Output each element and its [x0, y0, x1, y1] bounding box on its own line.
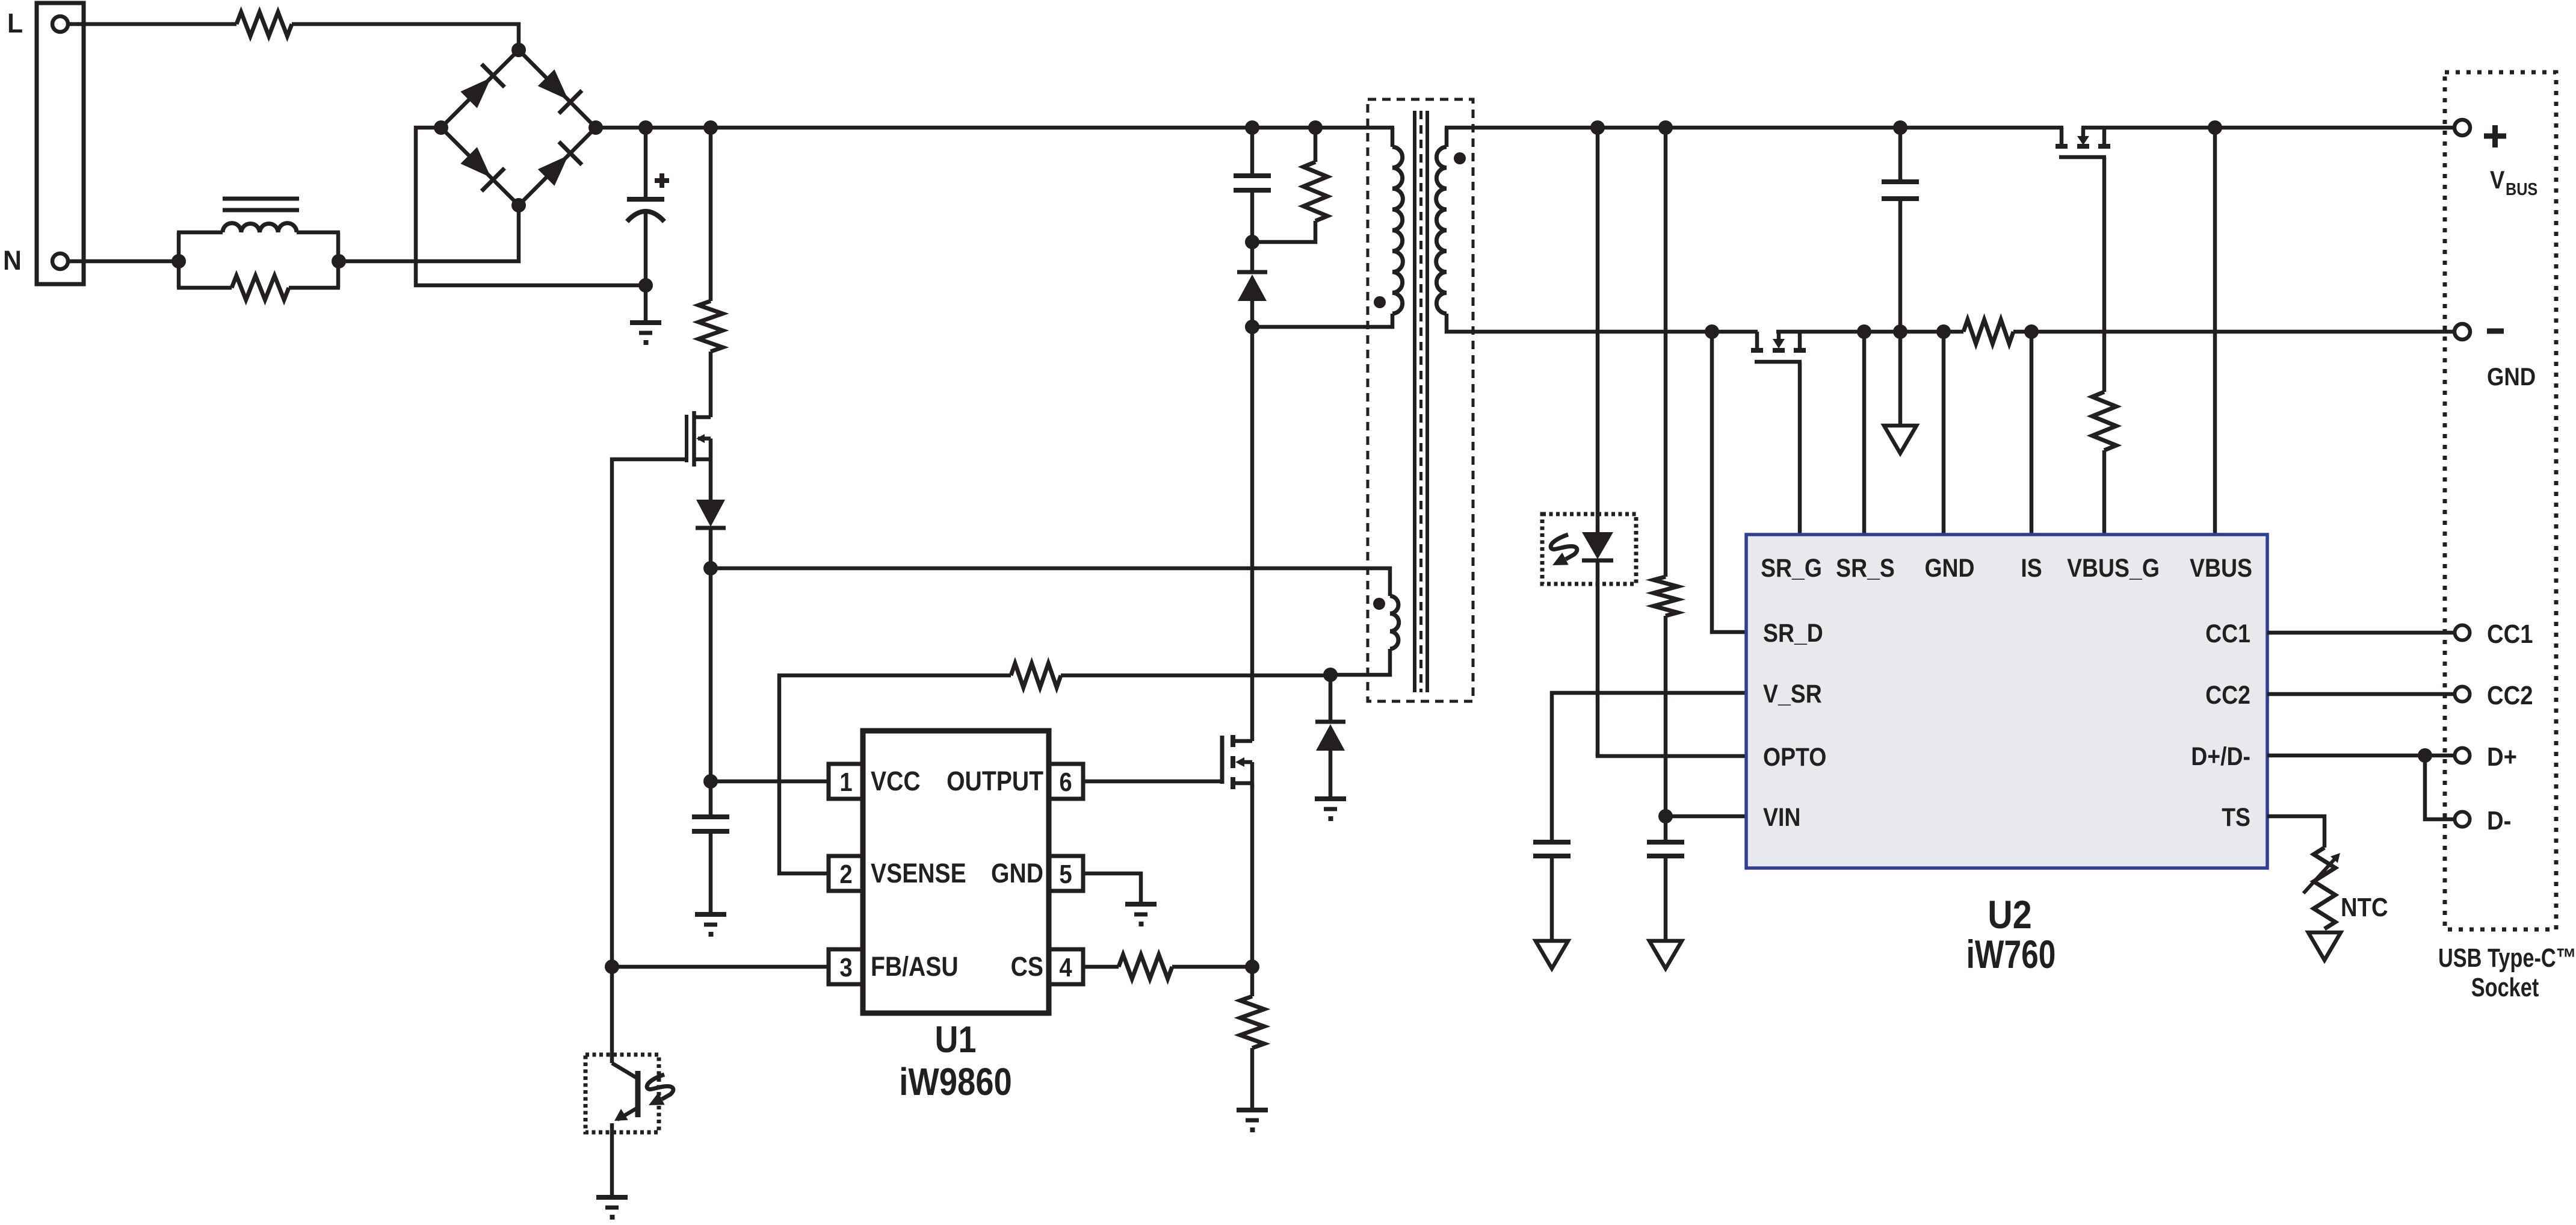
inductor L1 winding	[223, 223, 297, 232]
wire C6 to ground	[1898, 332, 1903, 426]
svg-text:CC1: CC1	[2205, 619, 2250, 648]
snubber diode D3	[1250, 242, 1255, 272]
ground NTC	[2308, 932, 2341, 960]
node bulk cap top	[638, 120, 653, 135]
choke core lines	[223, 197, 299, 201]
wire Q2 drain	[1250, 327, 1255, 741]
node GND tap	[1936, 324, 1951, 339]
svg-text:USB Type-C™: USB Type-C™	[2438, 943, 2576, 973]
svg-text:BUS: BUS	[2506, 179, 2537, 199]
wire secondary gnd rail	[1445, 330, 1758, 334]
svg-text:V: V	[2490, 166, 2504, 194]
ground sense resistor	[1237, 1108, 1268, 1112]
wire secondary top rail	[1445, 126, 2063, 130]
wire Q4 gate	[2102, 157, 2107, 392]
node LED top	[1590, 120, 1605, 135]
wire SR_S	[1862, 332, 1867, 535]
bridge top-left diode D5	[441, 50, 519, 128]
svg-text:SR_G: SR_G	[1761, 554, 1822, 583]
node IS tap	[2024, 324, 2039, 339]
svg-text:iW9860: iW9860	[899, 1060, 1012, 1103]
wire switch node to primary	[1252, 314, 1392, 327]
VCC capacitor C2	[709, 781, 713, 817]
U1 pin 1 box	[829, 764, 863, 799]
terminal D+	[2455, 748, 2470, 763]
ground opto emitter	[596, 1195, 628, 1200]
choke L1 frame right	[336, 232, 341, 288]
light arrow into U3B	[647, 1075, 673, 1099]
U1 pin 2 box	[829, 856, 863, 891]
svg-text:OUTPUT: OUTPUT	[947, 766, 1043, 796]
label C1 plus	[655, 178, 669, 183]
wire choke to bridge	[339, 205, 519, 261]
svg-text:SR_D: SR_D	[1763, 619, 1823, 648]
node CS sense	[1245, 960, 1259, 974]
wire R5 to sense node	[1172, 965, 1252, 969]
U1 pin 4 box	[1048, 949, 1083, 984]
ground bulk cap	[644, 285, 648, 323]
wire VBUS pin	[2213, 128, 2217, 535]
optocoupler LED D4	[1596, 128, 1600, 532]
wire R10 to VBUS_G	[2102, 450, 2107, 535]
sense resistor R6	[1250, 967, 1255, 996]
optocoupler phototransistor U3B	[610, 967, 614, 1063]
secondary winding T1	[1445, 128, 1449, 147]
wire pin4	[1083, 965, 1119, 969]
wire N to choke	[68, 259, 179, 264]
label minus	[2487, 329, 2504, 334]
transformer shield line	[1419, 111, 1422, 692]
aux diode D2	[1329, 675, 1333, 722]
wire VCC vertical	[709, 568, 713, 781]
wire OUTPUT to Q2 gate	[1083, 780, 1222, 784]
primary winding T1	[1391, 128, 1395, 147]
wire VCC to pin1	[711, 780, 829, 784]
svg-text:SR_S: SR_S	[1836, 554, 1895, 583]
node VBUS tap	[2208, 120, 2222, 135]
svg-text:GND: GND	[991, 858, 1043, 888]
wire FB/ASU	[612, 965, 829, 969]
wire VIN	[1666, 814, 1746, 819]
svg-text:L: L	[7, 8, 23, 39]
aux phase dot	[1373, 598, 1385, 610]
terminal L	[52, 16, 68, 32]
node SR_S tap	[1857, 324, 1871, 339]
svg-text:iW760: iW760	[1966, 932, 2056, 977]
node bulk cap bottom	[638, 278, 653, 293]
svg-text:U1: U1	[935, 1019, 977, 1061]
terminal CC2	[2455, 687, 2470, 702]
wire LED to OPTO pin	[1598, 752, 1746, 756]
wire IS	[2030, 332, 2034, 535]
terminal CC1	[2455, 625, 2470, 640]
ground aux diode	[1315, 796, 1346, 801]
optocoupler LED D4 box	[1542, 514, 1636, 584]
ground pin5	[1125, 902, 1157, 907]
transformer T1 boundary	[1368, 99, 1473, 701]
snubber capacitor C3	[1250, 128, 1255, 176]
op-amp U1 body (iW9860 controller)	[863, 731, 1049, 1013]
node output cap top	[1893, 120, 1907, 135]
op-amp U2 body (iW760 controller)	[1746, 535, 2267, 868]
transistor Q4 (VBUS switch MOSFET)	[2060, 128, 2064, 145]
wire VSENSE	[779, 675, 1011, 873]
ground VCC cap	[695, 912, 726, 917]
svg-text:IS: IS	[2021, 554, 2042, 583]
transformer core	[1413, 111, 1416, 692]
wire SR_D	[1712, 332, 1746, 632]
wire bridge negative return	[416, 128, 646, 285]
node snubber junction	[1245, 235, 1259, 249]
resistor R4 (VSENSE)	[1011, 663, 1061, 687]
node snubber res top	[1308, 120, 1323, 135]
wire L to fuse	[68, 22, 236, 26]
label plus	[2484, 134, 2506, 139]
terminal GND minus	[2454, 324, 2470, 340]
node D+ junction	[2418, 748, 2432, 763]
choke damping resistor R2	[177, 286, 232, 290]
resistor R5 (CS)	[1119, 955, 1172, 979]
svg-text:VIN: VIN	[1763, 803, 1800, 832]
fuse F1	[236, 12, 292, 36]
wire secondary gnd rail right	[1776, 330, 1963, 334]
node switch	[1245, 320, 1259, 334]
gate resistor R10	[2092, 392, 2116, 450]
svg-text:CS: CS	[1011, 951, 1043, 981]
svg-text:OPTO: OPTO	[1763, 743, 1826, 772]
svg-text:TS: TS	[2222, 803, 2250, 832]
node FB/ASU	[605, 960, 619, 974]
transistor Q2 (main switch MOSFET)	[1220, 736, 1225, 784]
bulk capacitor C1	[644, 128, 648, 199]
node choke left	[171, 254, 186, 268]
secondary phase dot	[1454, 152, 1466, 164]
USB Type-C socket boundary	[2445, 72, 2556, 929]
wire Q2 source to CS node	[1250, 783, 1255, 967]
wire secondary top rail right	[2081, 126, 2454, 130]
ground V_SR cap	[1536, 941, 1568, 969]
wire to D-	[2425, 755, 2454, 819]
terminal N	[52, 253, 68, 269]
connector J1 (AC input)	[37, 3, 84, 284]
node aux feedback	[1323, 668, 1338, 682]
node aux/VCC junction	[703, 561, 718, 575]
wire CC2	[2267, 692, 2454, 696]
wire GND pin	[1942, 332, 1946, 535]
svg-text:U2: U2	[1988, 893, 2031, 937]
svg-text:D+/D-: D+/D-	[2191, 742, 2250, 771]
ground output cap	[1884, 426, 1917, 453]
svg-text:GND: GND	[1924, 554, 1974, 583]
svg-text:CC2: CC2	[2487, 681, 2533, 710]
optocoupler phototransistor U3B box	[585, 1055, 659, 1132]
svg-text:5: 5	[1059, 860, 1072, 889]
node choke right	[332, 254, 346, 268]
svg-text:D-: D-	[2487, 806, 2511, 836]
primary phase dot	[1374, 296, 1386, 308]
wire V_SR	[1552, 693, 1746, 842]
node output cap bottom	[1893, 324, 1907, 339]
U1 pin 3 box	[829, 949, 863, 984]
U1 pin 6 box	[1048, 764, 1083, 799]
terminal D-	[2455, 812, 2470, 827]
aux winding T1	[1390, 596, 1399, 649]
svg-text:2: 2	[839, 860, 852, 889]
wire CC1	[2267, 631, 2454, 635]
wire pin5 to ground	[1083, 873, 1141, 904]
node VCC	[703, 774, 718, 789]
svg-text:VBUS_G: VBUS_G	[2067, 554, 2160, 583]
wire D3 to switch node	[1250, 301, 1255, 327]
thermistor NTC	[2314, 848, 2335, 929]
wire D+/D-	[2267, 754, 2454, 758]
wire R4 to aux	[1061, 674, 1330, 678]
svg-text:4: 4	[1059, 953, 1072, 982]
wire TS	[2267, 816, 2324, 848]
terminal VBUS plus	[2454, 120, 2470, 135]
wire fuse to bridge	[292, 24, 519, 50]
node bridge left	[434, 120, 448, 135]
wire HV rail	[596, 126, 1394, 130]
VIN capacitor C5	[1664, 816, 1668, 842]
node snubber cap top	[1245, 120, 1259, 135]
node bridge bottom	[511, 198, 526, 212]
snubber resistor R7	[1314, 128, 1318, 162]
startup MOSFET Q1	[685, 415, 688, 462]
node VIN	[1658, 809, 1673, 823]
bridge top-right diode D6	[519, 50, 596, 128]
node bridge right	[588, 120, 603, 135]
wire Q1 gate	[612, 459, 687, 967]
svg-text:Socket: Socket	[2471, 973, 2539, 1002]
svg-text:3: 3	[839, 953, 852, 982]
startup resistor R3	[709, 128, 713, 301]
light arrow from D4	[1551, 535, 1577, 559]
svg-text:VBUS: VBUS	[2190, 554, 2252, 583]
ground VIN cap	[1649, 941, 1682, 969]
svg-text:CC2: CC2	[2205, 681, 2250, 710]
node SR drain tap	[1705, 324, 1719, 339]
wire D1 to VCC node	[709, 528, 713, 568]
svg-text:GND: GND	[2487, 363, 2536, 391]
svg-text:1: 1	[839, 768, 852, 797]
resistor R8 (VIN feed)	[1664, 128, 1668, 577]
node bridge top	[511, 43, 526, 57]
sense resistor R9 (IS)	[1963, 320, 2013, 344]
output capacitor C6	[1898, 128, 1903, 182]
bridge bottom-left diode D7	[441, 128, 519, 205]
wire aux winding top	[711, 568, 1390, 596]
wire Q3 gate to SR_G	[1798, 362, 1802, 535]
svg-text:FB/ASU: FB/ASU	[871, 951, 959, 981]
V_SR capacitor C4	[1533, 840, 1571, 845]
svg-text:VCC: VCC	[871, 766, 921, 796]
svg-text:CC1: CC1	[2487, 619, 2533, 649]
transistor Q3 (sync rectifier MOSFET)	[1755, 332, 1759, 349]
svg-text:V_SR: V_SR	[1763, 680, 1822, 709]
startup diode D1	[696, 500, 725, 527]
svg-text:VSENSE: VSENSE	[871, 858, 966, 888]
node startup resistor top	[703, 120, 718, 135]
node VIN resistor top	[1658, 120, 1673, 135]
svg-text:D+: D+	[2487, 742, 2517, 772]
wire D2 to ground	[1329, 751, 1333, 799]
choke L1 frame left	[177, 232, 181, 288]
svg-text:NTC: NTC	[2341, 893, 2388, 922]
svg-text:6: 6	[1059, 768, 1072, 797]
bridge bottom-right diode D8	[519, 128, 596, 205]
U1 pin 5 box	[1048, 856, 1083, 891]
svg-text:N: N	[3, 246, 22, 276]
choke L1 top wires	[177, 231, 223, 235]
